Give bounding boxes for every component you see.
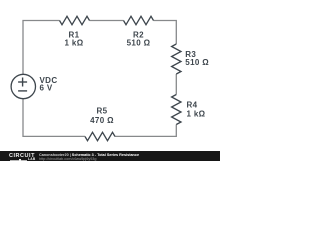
svg-text:R5: R5 bbox=[97, 106, 108, 115]
wire R4 to R5 via bottom-right corner bbox=[115, 125, 176, 137]
svg-text:6 V: 6 V bbox=[40, 84, 53, 93]
svg-text:1 kΩ: 1 kΩ bbox=[187, 109, 206, 118]
V1 minus sign bbox=[18, 90, 27, 92]
CircuitLab logo: CIRCUIT wordmark bbox=[9, 153, 61, 164]
resistor R2 bbox=[124, 16, 154, 24]
wire R3 to R4 bbox=[175, 74, 177, 95]
footer text line 1: user / schematic title bbox=[39, 153, 252, 161]
CircuitLab logo: wire dot bbox=[19, 159, 21, 161]
V1 plus sign bbox=[18, 81, 27, 83]
resistor R1 bbox=[60, 16, 90, 24]
wire R1 to R2 bbox=[90, 20, 124, 22]
svg-text:1 kΩ: 1 kΩ bbox=[65, 38, 84, 47]
resistor R4 bbox=[172, 95, 181, 125]
footer bar bbox=[0, 151, 220, 161]
wire R2 to R3 via top-right corner bbox=[154, 21, 177, 45]
CircuitLab logo: LAB text bbox=[28, 158, 43, 165]
CircuitLab logo: wire line bbox=[10, 160, 27, 161]
voltage source V1 bbox=[11, 74, 35, 98]
svg-text:510 Ω: 510 Ω bbox=[127, 38, 151, 47]
resistor R5 bbox=[85, 132, 115, 140]
svg-text:510 Ω: 510 Ω bbox=[185, 58, 209, 67]
footer text line 2: url bbox=[39, 157, 161, 165]
wire R5 to V1 via bottom-left corner bbox=[23, 99, 85, 137]
svg-text:R4: R4 bbox=[187, 100, 198, 109]
wire top-left to R1 bbox=[23, 21, 60, 75]
resistor R3 bbox=[172, 44, 181, 74]
svg-text:470 Ω: 470 Ω bbox=[90, 116, 114, 125]
